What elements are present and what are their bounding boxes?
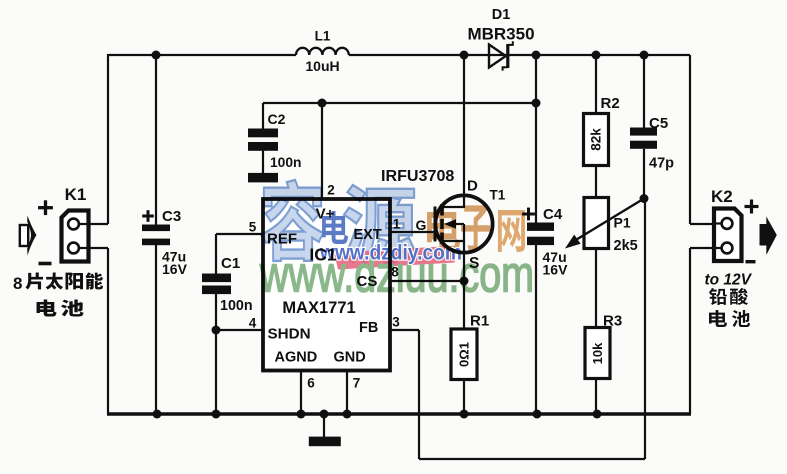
svg-text:P1: P1 xyxy=(614,215,631,231)
svg-text:C4: C4 xyxy=(543,206,563,223)
svg-text:C3: C3 xyxy=(162,208,181,225)
svg-text:16V: 16V xyxy=(543,262,569,278)
svg-text:FB: FB xyxy=(359,320,378,336)
svg-text:K1: K1 xyxy=(65,185,87,204)
svg-text:C5: C5 xyxy=(649,115,668,132)
svg-text:82k: 82k xyxy=(589,128,604,151)
svg-text:10k: 10k xyxy=(590,342,605,364)
svg-text:8: 8 xyxy=(13,274,22,293)
svg-text:T1: T1 xyxy=(490,188,506,203)
svg-text:10uH: 10uH xyxy=(305,58,339,74)
svg-text:2k5: 2k5 xyxy=(614,238,638,254)
svg-text:7: 7 xyxy=(353,376,361,391)
svg-text:D1: D1 xyxy=(492,7,511,23)
svg-text:16V: 16V xyxy=(162,261,188,277)
svg-text:MBR350: MBR350 xyxy=(467,25,534,44)
svg-text:5: 5 xyxy=(249,220,257,235)
svg-text:www.dzdiy.com: www.dzdiy.com xyxy=(319,241,462,265)
svg-text:R3: R3 xyxy=(603,313,622,330)
svg-text:47p: 47p xyxy=(649,156,674,172)
svg-text:0Ω1: 0Ω1 xyxy=(457,342,472,367)
svg-text:SHDN: SHDN xyxy=(268,326,311,343)
svg-text:R1: R1 xyxy=(470,313,489,330)
svg-text:3: 3 xyxy=(392,315,400,330)
svg-text:100n: 100n xyxy=(270,155,301,170)
svg-text:G: G xyxy=(416,217,427,233)
svg-text:2: 2 xyxy=(327,183,335,198)
svg-text:IRFU3708: IRFU3708 xyxy=(381,167,454,185)
svg-text:L1: L1 xyxy=(315,29,331,44)
svg-text:D: D xyxy=(467,178,478,195)
svg-text:R2: R2 xyxy=(601,95,620,112)
svg-text:4: 4 xyxy=(249,316,257,331)
svg-text:GND: GND xyxy=(334,350,366,366)
svg-text:100n: 100n xyxy=(220,298,253,314)
svg-text:AGND: AGND xyxy=(275,350,318,366)
svg-text:C2: C2 xyxy=(268,111,286,127)
svg-text:C1: C1 xyxy=(221,255,240,272)
svg-text:K2: K2 xyxy=(711,187,733,206)
svg-text:6: 6 xyxy=(307,376,315,391)
svg-text:to 12V: to 12V xyxy=(705,272,753,289)
